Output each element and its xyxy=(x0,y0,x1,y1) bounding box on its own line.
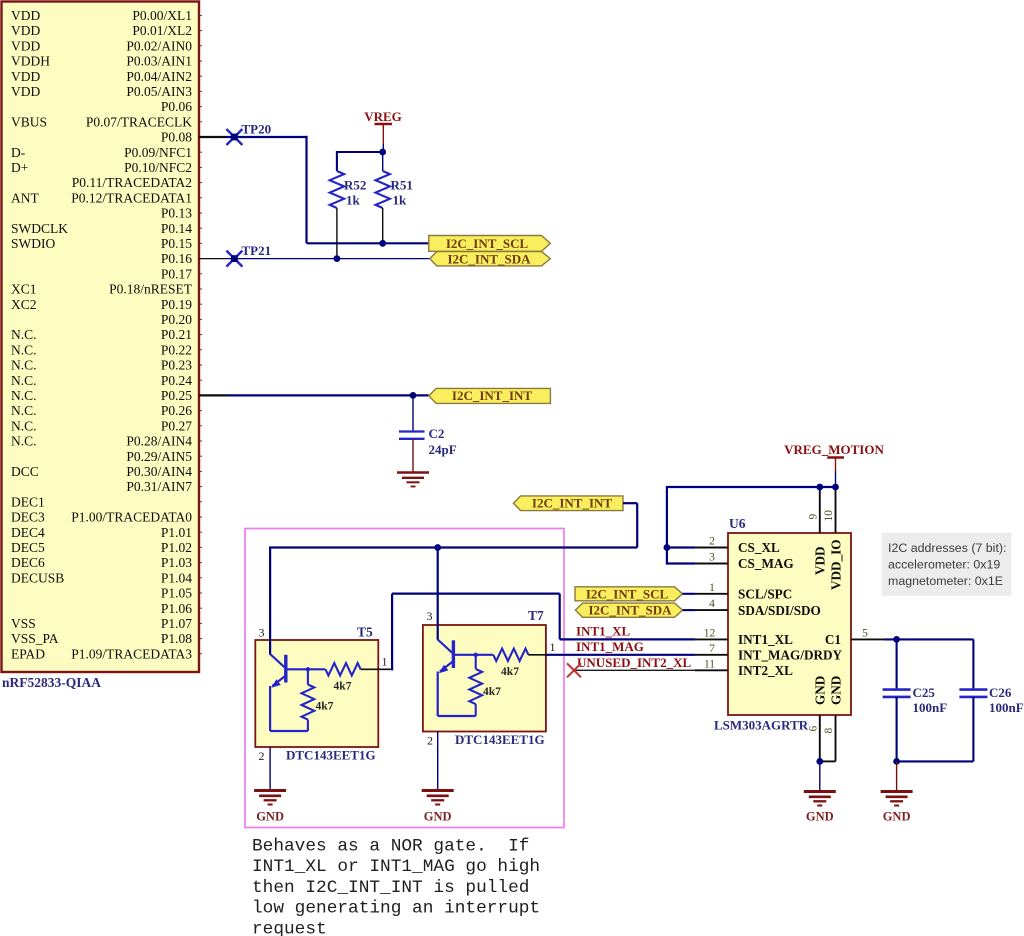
svg-text:24pF: 24pF xyxy=(429,442,457,457)
svg-text:XC1: XC1 xyxy=(11,282,37,297)
svg-text:INT1_MAG: INT1_MAG xyxy=(576,639,644,654)
svg-text:DTC143EET1G: DTC143EET1G xyxy=(455,732,545,747)
svg-text:P0.23: P0.23 xyxy=(161,358,192,373)
svg-text:D-: D- xyxy=(11,145,26,160)
svg-text:P0.15: P0.15 xyxy=(161,236,192,251)
svg-text:I2C addresses (7 bit):: I2C addresses (7 bit): xyxy=(888,541,1006,555)
net flag I2C_INT_SDA (mid) xyxy=(575,603,682,618)
svg-text:N.C.: N.C. xyxy=(11,358,37,373)
wire TP20 to corner xyxy=(226,136,308,138)
svg-text:N.C.: N.C. xyxy=(11,388,37,403)
svg-text:P0.18/nRESET: P0.18/nRESET xyxy=(109,282,193,297)
junction R51/SCL xyxy=(379,240,386,247)
note NOR gate explanation xyxy=(252,836,540,936)
junction R52/SDA xyxy=(334,255,341,262)
svg-text:3: 3 xyxy=(427,609,433,623)
capacitor C26 xyxy=(959,690,987,697)
svg-text:P0.05/AIN3: P0.05/AIN3 xyxy=(126,84,192,99)
capacitor C25 xyxy=(883,690,911,697)
wire I2C_INT_SCL horizontal xyxy=(307,242,429,244)
svg-text:I2C_INT_INT: I2C_INT_INT xyxy=(532,496,613,511)
svg-text:D+: D+ xyxy=(11,160,28,175)
svg-text:1k: 1k xyxy=(393,193,408,208)
wire VREG stub xyxy=(382,144,384,152)
ground C2 xyxy=(397,473,429,487)
svg-text:GND: GND xyxy=(806,810,834,824)
svg-text:I2C_INT_SCL: I2C_INT_SCL xyxy=(586,586,669,601)
wire down to NOR rail xyxy=(636,503,638,547)
svg-text:INT_MAG/DRDY: INT_MAG/DRDY xyxy=(738,648,843,663)
svg-text:C1: C1 xyxy=(825,632,841,647)
wire pin5 to C26 xyxy=(885,638,974,640)
ground T7 xyxy=(422,791,454,805)
transistor T7 emitter xyxy=(438,661,476,716)
svg-text:N.C.: N.C. xyxy=(11,373,37,388)
svg-text:CS_XL: CS_XL xyxy=(738,540,780,555)
wire caps to ground xyxy=(896,761,898,790)
svg-text:P0.14: P0.14 xyxy=(161,221,192,236)
svg-text:VDD: VDD xyxy=(11,84,40,99)
junction C2 tap xyxy=(410,392,417,399)
svg-text:T5: T5 xyxy=(357,625,373,640)
svg-text:then I2C_INT_INT is pulled: then I2C_INT_INT is pulled xyxy=(252,878,529,898)
svg-text:P0.07/TRACECLK: P0.07/TRACECLK xyxy=(86,114,192,129)
svg-text:P1.03: P1.03 xyxy=(161,555,192,570)
svg-text:DCC: DCC xyxy=(11,464,39,479)
svg-text:VDDH: VDDH xyxy=(11,54,50,69)
wire VREG junction to R52 top xyxy=(337,151,383,153)
svg-text:3: 3 xyxy=(709,552,715,564)
svg-text:nRF52833-QIAA: nRF52833-QIAA xyxy=(2,675,101,690)
svg-text:INT1_XL: INT1_XL xyxy=(576,624,631,639)
wire C26 top lead xyxy=(972,639,974,688)
svg-text:VDD_IO: VDD_IO xyxy=(828,539,843,590)
junction pins 6/8 xyxy=(816,758,823,765)
svg-text:P0.17: P0.17 xyxy=(161,266,192,281)
svg-text:DEC6: DEC6 xyxy=(11,555,45,570)
svg-text:P0.06: P0.06 xyxy=(161,99,192,114)
ground T5 xyxy=(254,791,286,805)
svg-text:100nF: 100nF xyxy=(913,700,948,715)
svg-text:Behaves as a NOR gate. If: Behaves as a NOR gate. If xyxy=(252,836,529,856)
svg-text:R51: R51 xyxy=(391,178,413,193)
svg-text:P0.31/AIN7: P0.31/AIN7 xyxy=(126,479,192,494)
wire C2 bottom lead xyxy=(412,439,414,472)
resistor T5 base 4k7 xyxy=(326,663,393,675)
wire CS_MAG xyxy=(667,562,695,564)
svg-text:P0.24: P0.24 xyxy=(161,373,192,388)
svg-text:7: 7 xyxy=(709,643,715,655)
svg-text:P0.02/AIN0: P0.02/AIN0 xyxy=(126,38,192,53)
junction pin 10 xyxy=(832,484,839,491)
svg-text:accelerometer: 0x19: accelerometer: 0x19 xyxy=(888,558,1000,572)
svg-text:P0.08: P0.08 xyxy=(161,130,192,145)
svg-text:P0.29/AIN5: P0.29/AIN5 xyxy=(126,449,192,464)
wire down to INT1_XL xyxy=(559,594,561,640)
svg-text:P0.28/AIN4: P0.28/AIN4 xyxy=(126,434,192,449)
IC U6 pin names xyxy=(738,539,843,705)
wire T5 collector drop xyxy=(269,546,271,640)
svg-text:P0.27: P0.27 xyxy=(161,418,192,433)
IC U6 pin numbers top/bottom xyxy=(807,510,835,734)
wire vertical down to SCL line xyxy=(305,136,307,243)
resistor T7 base 4k7 xyxy=(493,649,546,661)
svg-text:GND: GND xyxy=(256,810,284,824)
net flag I2C_INT_SDA (top) xyxy=(430,251,551,266)
svg-text:DEC3: DEC3 xyxy=(11,510,45,525)
svg-text:10: 10 xyxy=(823,510,835,522)
annotation pink frame xyxy=(245,529,564,828)
wire C2 top lead xyxy=(412,395,414,430)
transistor T5 body xyxy=(255,639,378,747)
svg-text:3: 3 xyxy=(259,626,265,640)
net flag I2C_INT_INT (left) xyxy=(429,388,551,403)
svg-text:P0.12/TRACEDATA1: P0.12/TRACEDATA1 xyxy=(71,190,192,205)
svg-text:C2: C2 xyxy=(429,426,445,441)
junction VREG xyxy=(379,149,386,156)
svg-text:DEC1: DEC1 xyxy=(11,494,45,509)
svg-text:magnetometer: 0x1E: magnetometer: 0x1E xyxy=(888,574,1003,588)
svg-text:GND: GND xyxy=(813,676,828,705)
no-connect X xyxy=(567,663,581,677)
resistor R52 xyxy=(330,151,344,259)
svg-text:P0.10/NFC2: P0.10/NFC2 xyxy=(124,160,192,175)
svg-text:P0.19: P0.19 xyxy=(161,297,192,312)
svg-text:SWDIO: SWDIO xyxy=(11,236,55,251)
svg-text:P1.06: P1.06 xyxy=(161,601,192,616)
wire SCL flag to pin 1 xyxy=(683,593,696,595)
svg-text:ANT: ANT xyxy=(11,190,39,205)
svg-text:N.C.: N.C. xyxy=(11,342,37,357)
wire C25 bottom lead xyxy=(896,697,898,762)
svg-text:P0.04/AIN2: P0.04/AIN2 xyxy=(126,69,192,84)
svg-text:CS_MAG: CS_MAG xyxy=(738,556,794,571)
svg-text:GND: GND xyxy=(424,810,452,824)
junction C25 top xyxy=(893,636,900,643)
junction caps gnd xyxy=(893,758,900,765)
svg-text:1: 1 xyxy=(709,582,715,594)
junction T7 collector on rail xyxy=(434,544,441,551)
svg-text:4k7: 4k7 xyxy=(334,681,352,693)
wire T7 collector drop xyxy=(437,548,439,626)
svg-text:12: 12 xyxy=(704,627,716,639)
svg-text:2: 2 xyxy=(709,536,715,548)
IC U2 right-edge pin stubs xyxy=(200,15,202,653)
wire INT1_MAG xyxy=(546,654,695,656)
wire CS_XL xyxy=(667,546,695,548)
svg-text:P0.21: P0.21 xyxy=(161,327,192,342)
resistor R51 xyxy=(376,152,390,243)
svg-text:VREG_MOTION: VREG_MOTION xyxy=(784,442,884,457)
transistor T5 emitter xyxy=(270,676,308,732)
svg-text:P0.16: P0.16 xyxy=(161,251,192,266)
svg-text:DTC143EET1G: DTC143EET1G xyxy=(286,748,376,763)
junction CS_XL xyxy=(664,544,671,551)
svg-text:P1.08: P1.08 xyxy=(161,631,192,646)
svg-text:GND: GND xyxy=(883,810,911,824)
transistor T7 body xyxy=(423,624,546,732)
svg-text:GND: GND xyxy=(828,676,843,705)
net flag I2C_INT_SCL (top) xyxy=(429,236,551,252)
svg-text:P0.00/XL1: P0.00/XL1 xyxy=(132,8,192,23)
wire C26 bottom lead xyxy=(972,697,974,762)
wire T5 base up xyxy=(391,594,393,671)
svg-text:1: 1 xyxy=(382,655,388,669)
IC U6 top/bottom pin stubs xyxy=(820,487,836,761)
svg-text:I2C_INT_SDA: I2C_INT_SDA xyxy=(447,251,531,266)
net flag I2C_INT_INT (to NOR) xyxy=(513,496,623,511)
svg-text:P0.09/NFC1: P0.09/NFC1 xyxy=(124,145,192,160)
svg-text:VSS_PA: VSS_PA xyxy=(11,631,59,646)
IC U6 body xyxy=(728,533,851,715)
svg-text:N.C.: N.C. xyxy=(11,434,37,449)
wire T5 base horizontal xyxy=(392,592,560,594)
wire P0.16 pin stub xyxy=(199,258,226,260)
svg-text:low generating an interrupt: low generating an interrupt xyxy=(252,899,540,919)
svg-text:8: 8 xyxy=(823,728,835,734)
svg-text:VDD: VDD xyxy=(11,8,40,23)
wire VDD rail horizontal xyxy=(667,486,836,488)
svg-text:P1.07: P1.07 xyxy=(161,616,192,631)
svg-text:P0.25: P0.25 xyxy=(161,388,192,403)
svg-text:P0.22: P0.22 xyxy=(161,342,192,357)
test point TP20 xyxy=(226,129,242,145)
svg-text:SWDCLK: SWDCLK xyxy=(11,221,68,236)
svg-text:9: 9 xyxy=(807,514,819,520)
svg-text:LSM303AGRTR: LSM303AGRTR xyxy=(714,718,809,733)
svg-text:VSS: VSS xyxy=(11,616,36,631)
ground C25/C26 xyxy=(881,792,913,806)
svg-text:P1.00/TRACEDATA0: P1.00/TRACEDATA0 xyxy=(71,510,192,525)
svg-text:P0.26: P0.26 xyxy=(161,403,192,418)
svg-text:C25: C25 xyxy=(913,685,936,700)
wire P0.25 pin stub xyxy=(199,394,227,396)
svg-text:VREG: VREG xyxy=(364,109,402,124)
IC U6 pin numbers left xyxy=(704,536,716,671)
svg-text:P1.02: P1.02 xyxy=(161,540,192,555)
svg-text:SCL/SPC: SCL/SPC xyxy=(738,587,792,602)
IC U6 pin stubs left xyxy=(695,548,728,671)
ground U6 xyxy=(804,792,836,806)
svg-text:INT1_XL: INT1_XL xyxy=(738,632,793,647)
svg-text:4k7: 4k7 xyxy=(501,666,519,678)
wire flag to corner xyxy=(623,502,637,504)
svg-text:P1.01: P1.01 xyxy=(161,525,192,540)
svg-text:VDD: VDD xyxy=(11,38,40,53)
svg-text:TP20: TP20 xyxy=(242,122,272,137)
svg-text:C26: C26 xyxy=(989,685,1012,700)
svg-text:P1.09/TRACEDATA3: P1.09/TRACEDATA3 xyxy=(71,646,192,661)
svg-text:EPAD: EPAD xyxy=(11,646,45,661)
svg-text:DEC4: DEC4 xyxy=(11,525,45,540)
junction pin 9 xyxy=(816,484,823,491)
power symbol VREG xyxy=(364,109,402,144)
svg-text:DECUSB: DECUSB xyxy=(11,570,64,585)
svg-text:VDD: VDD xyxy=(11,23,40,38)
wire pin8 jog xyxy=(820,760,836,762)
capacitor C2 xyxy=(399,432,425,439)
net flag I2C_INT_SCL (mid) xyxy=(575,586,683,601)
IC U2 pin name rows xyxy=(11,8,193,661)
resistor T5 base-emitter 4k7 xyxy=(302,667,315,731)
svg-text:T7: T7 xyxy=(528,608,544,623)
svg-text:4k7: 4k7 xyxy=(316,701,334,713)
svg-text:INT1_XL or INT1_MAG go high: INT1_XL or INT1_MAG go high xyxy=(252,857,540,877)
resistor T7 base-emitter 4k7 xyxy=(469,653,482,716)
svg-text:INT2_XL: INT2_XL xyxy=(738,663,793,678)
svg-text:2: 2 xyxy=(259,749,265,763)
wire CS vertical xyxy=(666,486,668,565)
svg-text:TP21: TP21 xyxy=(242,243,272,258)
wire I2C_INT_SDA horizontal xyxy=(226,258,430,260)
svg-text:UNUSED_INT2_XL: UNUSED_INT2_XL xyxy=(577,655,691,670)
svg-text:P0.13: P0.13 xyxy=(161,206,192,221)
wire SDA flag to pin 4 xyxy=(683,609,696,611)
svg-text:1: 1 xyxy=(550,640,556,654)
svg-text:VDD: VDD xyxy=(11,69,40,84)
svg-text:VDD: VDD xyxy=(813,546,828,575)
svg-text:P0.11/TRACEDATA2: P0.11/TRACEDATA2 xyxy=(72,175,192,190)
note I2C addresses xyxy=(882,533,1012,596)
svg-text:P0.01/XL2: P0.01/XL2 xyxy=(132,23,192,38)
svg-text:I2C_INT_INT: I2C_INT_INT xyxy=(452,388,533,403)
svg-text:N.C.: N.C. xyxy=(11,327,37,342)
svg-text:XC2: XC2 xyxy=(11,297,37,312)
svg-text:4: 4 xyxy=(709,598,715,610)
svg-text:U6: U6 xyxy=(729,516,746,531)
IC U2 nRF52833-QIAA body xyxy=(2,2,200,673)
wire UNUSED_INT2_XL xyxy=(574,669,695,671)
svg-text:100nF: 100nF xyxy=(989,700,1024,715)
svg-text:2: 2 xyxy=(427,734,433,748)
svg-text:P0.03/AIN1: P0.03/AIN1 xyxy=(126,54,192,69)
test point TP21 xyxy=(226,251,242,267)
wire T7 emitter to ground xyxy=(437,732,439,790)
wire caps bottom rail xyxy=(897,760,974,762)
svg-text:DEC5: DEC5 xyxy=(11,540,45,555)
wire VREG_MOTION stub xyxy=(835,471,837,487)
power symbol VREG_MOTION xyxy=(784,442,884,471)
svg-text:1k: 1k xyxy=(346,193,361,208)
svg-text:P1.05: P1.05 xyxy=(161,586,192,601)
svg-text:P0.30/AIN4: P0.30/AIN4 xyxy=(126,464,192,479)
svg-text:I2C_INT_SDA: I2C_INT_SDA xyxy=(588,603,672,618)
wire NOR output rail xyxy=(270,546,637,548)
svg-text:I2C_INT_SCL: I2C_INT_SCL xyxy=(446,236,529,251)
svg-text:5: 5 xyxy=(862,627,868,639)
svg-text:P1.04: P1.04 xyxy=(161,570,192,585)
svg-text:SDA/SDI/SDO: SDA/SDI/SDO xyxy=(738,603,821,618)
svg-text:4k7: 4k7 xyxy=(483,686,501,698)
svg-text:N.C.: N.C. xyxy=(11,403,37,418)
svg-text:11: 11 xyxy=(704,658,715,670)
wire U6 to ground xyxy=(819,761,821,790)
svg-text:VBUS: VBUS xyxy=(11,114,47,129)
wire P0.25 to flag xyxy=(227,394,429,396)
svg-text:P0.20: P0.20 xyxy=(161,312,192,327)
svg-text:R52: R52 xyxy=(344,178,366,193)
wire P0.08 pin stub xyxy=(199,136,226,138)
wire C25 top lead xyxy=(896,639,898,688)
wire T5 emitter to ground xyxy=(269,747,271,790)
wire pin 5 stub xyxy=(851,638,885,640)
wire INT1_XL xyxy=(560,638,695,640)
svg-text:6: 6 xyxy=(807,726,819,732)
svg-text:N.C.: N.C. xyxy=(11,418,37,433)
svg-text:request: request xyxy=(252,919,327,936)
